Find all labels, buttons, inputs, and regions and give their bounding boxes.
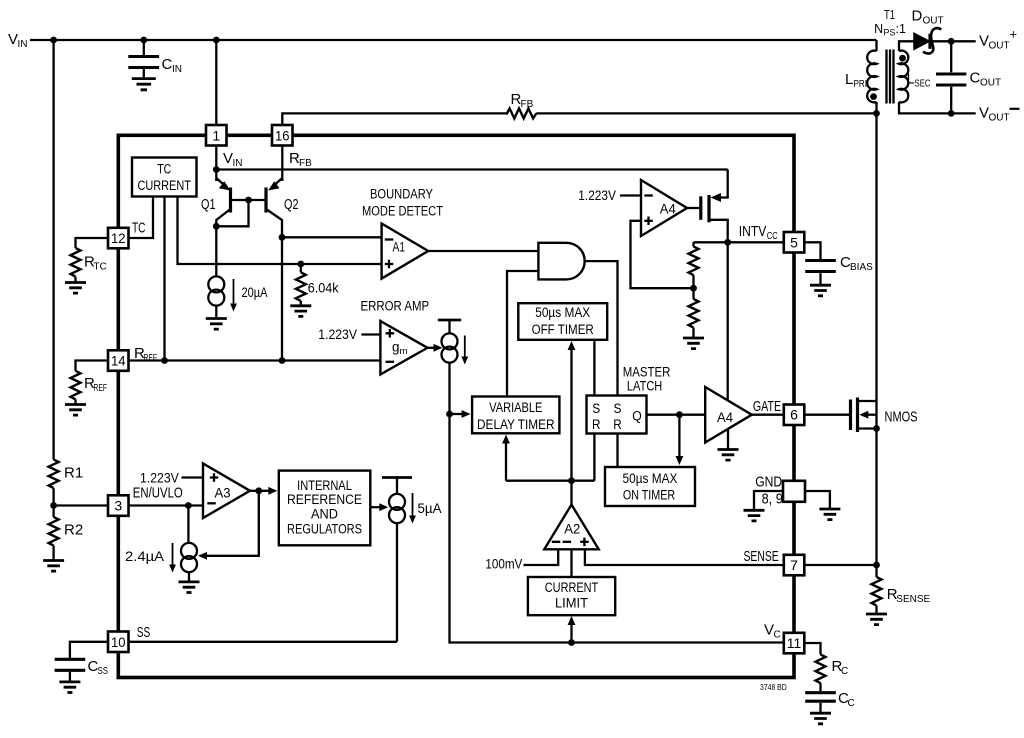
svg-text:A4: A4 bbox=[717, 410, 733, 425]
wire pin6 to NMOS gate bbox=[804, 414, 850, 416]
resistor RTC bbox=[71, 248, 81, 277]
node junction pin1 internal bbox=[213, 166, 220, 173]
svg-text:100mV: 100mV bbox=[485, 557, 522, 572]
svg-text:MODE DETECT: MODE DETECT bbox=[362, 204, 443, 219]
svg-text:Q: Q bbox=[632, 409, 642, 424]
capacitor CC bbox=[805, 693, 836, 713]
svg-text:SENSE: SENSE bbox=[744, 548, 779, 565]
svg-text:OFF TIMER: OFF TIMER bbox=[532, 322, 594, 337]
node junction CIN tap bbox=[140, 37, 147, 44]
svg-text:Q1: Q1 bbox=[201, 196, 216, 213]
svg-text:A2: A2 bbox=[564, 521, 580, 536]
svg-text:MASTER: MASTER bbox=[623, 365, 671, 380]
node junction R1 R2 bbox=[50, 502, 57, 509]
capacitor CBIAS bbox=[805, 261, 836, 285]
node junction INTVCC bbox=[724, 239, 731, 246]
node junction Q1 collector bbox=[213, 223, 220, 230]
svg-text:SENSE: SENSE bbox=[896, 594, 930, 605]
wire GND pin left bbox=[754, 491, 783, 510]
current source 2.4uA bbox=[181, 506, 197, 582]
svg-text:S: S bbox=[614, 401, 622, 416]
svg-text:V: V bbox=[979, 105, 989, 122]
wire INTVCC to gate driver supply bbox=[727, 242, 729, 401]
node junction RSENSE bbox=[873, 562, 880, 569]
svg-text:SS: SS bbox=[137, 624, 151, 641]
svg-text:C: C bbox=[162, 56, 173, 73]
wire internal VIN rail bbox=[216, 168, 727, 170]
label pin16 RFB bbox=[289, 150, 312, 169]
svg-text:C: C bbox=[848, 698, 855, 709]
wire A4 driver output bbox=[752, 414, 784, 416]
wire TC CURRENT to RREF line bbox=[163, 197, 165, 361]
svg-text:IN: IN bbox=[172, 64, 182, 75]
wire SS line bbox=[129, 641, 398, 643]
wire 1.223V to gm plus bbox=[361, 333, 380, 335]
svg-text:REF: REF bbox=[144, 353, 158, 364]
label pin14 RREF bbox=[134, 345, 157, 364]
svg-text:TC: TC bbox=[132, 220, 146, 237]
wire R1 to node bbox=[54, 488, 108, 505]
wire VIN down to R1 bbox=[52, 40, 54, 460]
resistor RFB bbox=[506, 108, 537, 118]
node junction divider bbox=[690, 285, 697, 292]
comparator A2 bbox=[544, 505, 598, 550]
svg-text:S: S bbox=[592, 401, 600, 416]
svg-text:10: 10 bbox=[111, 634, 126, 650]
svg-text:IN: IN bbox=[233, 158, 243, 169]
svg-text:REGULATORS: REGULATORS bbox=[287, 522, 362, 537]
wire A2 plus to SENSE bbox=[585, 549, 784, 565]
wire error output to VC bbox=[450, 414, 784, 643]
node VIN label bbox=[8, 31, 28, 50]
arrow Q to ON timer bbox=[676, 415, 684, 465]
diode DOUT bbox=[914, 33, 930, 49]
capacitor CIN bbox=[128, 40, 159, 78]
svg-text:C: C bbox=[970, 70, 981, 87]
pin 16 bbox=[272, 125, 293, 146]
arrow A2 to OFF timer bbox=[568, 341, 576, 505]
inductor LPRI winding bbox=[867, 51, 876, 103]
svg-text:R: R bbox=[613, 417, 622, 432]
pin 14 bbox=[108, 350, 129, 371]
pin 6 bbox=[784, 405, 805, 426]
label RSENSE bbox=[887, 586, 931, 605]
wire pin14 to RREF bbox=[76, 361, 109, 371]
node junction RREF-Q2 bbox=[279, 357, 286, 364]
arrow 5uA down bbox=[409, 493, 416, 524]
wire VIN rail bbox=[30, 39, 877, 41]
op-amp A4 regulator bbox=[641, 180, 687, 236]
svg-text:CURRENT: CURRENT bbox=[138, 178, 191, 193]
block CURRENT LIMIT bbox=[528, 577, 615, 615]
label CBIAS bbox=[840, 254, 873, 273]
svg-text:SS: SS bbox=[98, 666, 109, 677]
ground CSS bbox=[59, 682, 80, 693]
svg-text:OUT: OUT bbox=[989, 41, 1010, 52]
wire pin12 to RTC bbox=[76, 238, 109, 248]
node phase dot primary bbox=[870, 93, 877, 100]
svg-text:VARIABLE: VARIABLE bbox=[489, 400, 542, 415]
transistor PMOS pass bbox=[687, 170, 728, 243]
svg-text:R1: R1 bbox=[64, 465, 83, 482]
label BOUNDARY MODE DETECT bbox=[362, 187, 443, 219]
node junction VIN-left bbox=[50, 37, 57, 44]
wire A1 to AND bbox=[428, 250, 538, 252]
IC boundary LT3748 bbox=[118, 135, 794, 677]
label LPRI bbox=[845, 71, 867, 90]
svg-text:g: g bbox=[392, 340, 400, 355]
svg-text:INTV: INTV bbox=[739, 223, 767, 240]
label RC bbox=[832, 658, 849, 677]
transformer core bbox=[887, 50, 894, 104]
svg-text:LIMIT: LIMIT bbox=[555, 596, 588, 611]
pin 10 bbox=[108, 632, 129, 653]
svg-text:SEC: SEC bbox=[915, 79, 931, 90]
wire OFF timer to latch S bbox=[593, 340, 595, 396]
label CSS bbox=[88, 658, 109, 677]
node junction NMOS source bbox=[873, 425, 880, 432]
arrow A3 to internal ref bbox=[250, 487, 277, 495]
block 50us MAX ON TIMER bbox=[605, 467, 695, 506]
ground CC bbox=[810, 713, 831, 724]
svg-text:NMOS: NMOS bbox=[885, 409, 918, 426]
node junction primary-RFB bbox=[873, 110, 880, 117]
wire latch Q output bbox=[647, 414, 706, 416]
svg-text:m: m bbox=[400, 346, 408, 357]
ground RTC bbox=[65, 283, 86, 294]
svg-text:OUT: OUT bbox=[980, 78, 1001, 89]
svg-text:REF: REF bbox=[94, 383, 108, 394]
ground CIN bbox=[132, 79, 156, 90]
svg-text:EN/UVLO: EN/UVLO bbox=[133, 485, 183, 502]
label LSEC bbox=[907, 71, 931, 90]
svg-text:OUT: OUT bbox=[923, 16, 944, 27]
svg-text:T1: T1 bbox=[884, 8, 895, 22]
inductor LSEC winding bbox=[899, 51, 908, 103]
svg-text:1.223V: 1.223V bbox=[318, 327, 357, 342]
wire 100mV input bbox=[524, 549, 559, 565]
label pin1 VIN bbox=[223, 150, 243, 169]
svg-text:7: 7 bbox=[790, 557, 798, 573]
block 50us MAX OFF TIMER bbox=[518, 303, 607, 340]
block TC CURRENT bbox=[132, 158, 197, 197]
block VARIABLE DELAY TIMER bbox=[472, 397, 559, 434]
svg-text:INTERNAL: INTERNAL bbox=[297, 478, 352, 493]
wire primary bottom bbox=[875, 102, 877, 113]
pin 1 bbox=[206, 125, 227, 146]
wire RREF internal line bbox=[129, 359, 381, 361]
pin GND 8,9 bbox=[783, 481, 805, 502]
svg-text:5µA: 5µA bbox=[418, 501, 442, 516]
svg-text:V: V bbox=[764, 622, 774, 639]
wire secondary top bbox=[899, 41, 914, 51]
wire GND pin right bbox=[805, 491, 830, 509]
ground R2 bbox=[43, 561, 64, 572]
op-amp gm error amp bbox=[380, 321, 427, 375]
current source 20uA bbox=[208, 226, 224, 318]
label RFB resistor bbox=[511, 91, 534, 110]
svg-text:1: 1 bbox=[212, 127, 220, 143]
svg-text::1: :1 bbox=[896, 22, 906, 36]
node junction COUT bottom bbox=[948, 110, 955, 117]
wire pin5 to CBIAS bbox=[804, 242, 820, 259]
label DOUT bbox=[912, 8, 944, 27]
wire RREF to ground bbox=[74, 399, 76, 404]
transformer T1 primary lead bbox=[875, 40, 877, 51]
arrow into variable delay timer bbox=[450, 410, 471, 418]
svg-text:PS: PS bbox=[883, 28, 895, 38]
svg-text:AND: AND bbox=[311, 506, 338, 521]
wire 1.223V to A3 plus bbox=[182, 476, 204, 478]
node junction COUT top bbox=[948, 38, 955, 45]
svg-text:BIAS: BIAS bbox=[850, 262, 873, 273]
node junction reset A2 bbox=[568, 477, 575, 484]
label CC bbox=[838, 690, 855, 709]
node junction VDT tap bbox=[446, 411, 453, 418]
wire 1.223V to A4 minus bbox=[620, 194, 641, 196]
svg-text:6.04k: 6.04k bbox=[308, 280, 339, 295]
ground CBIAS bbox=[810, 285, 831, 296]
pin 11 bbox=[784, 633, 805, 654]
svg-text:50µs MAX: 50µs MAX bbox=[623, 471, 678, 486]
capacitor COUT bbox=[936, 41, 966, 113]
wire pin16 up and RFB line bbox=[282, 113, 876, 125]
wire TC CURRENT to A1 plus line bbox=[178, 197, 382, 265]
wire pin12 to TC CURRENT bbox=[129, 197, 154, 239]
svg-text:A4: A4 bbox=[660, 202, 676, 217]
wire pin11 to RC bbox=[804, 643, 820, 655]
resistor R1 bbox=[49, 460, 59, 489]
label VOUT- bbox=[979, 105, 1020, 124]
op-amp A1 bbox=[382, 224, 429, 279]
ground 6.04k bbox=[290, 306, 311, 317]
op-amp A4 gate driver bbox=[705, 387, 752, 443]
svg-text:R: R bbox=[592, 417, 601, 432]
ground RREF bbox=[65, 405, 86, 416]
svg-text:16: 16 bbox=[275, 127, 290, 143]
svg-text:GATE: GATE bbox=[753, 398, 781, 415]
transistor NMOS bbox=[851, 398, 877, 566]
svg-text:+: + bbox=[1010, 27, 1018, 42]
wire reset line bbox=[506, 480, 594, 482]
svg-text:12: 12 bbox=[111, 230, 126, 246]
resistor divider lower bbox=[689, 288, 699, 337]
wire A1 minus input bbox=[282, 236, 382, 238]
svg-text:TC: TC bbox=[157, 162, 171, 177]
svg-text:8, 9: 8, 9 bbox=[762, 491, 783, 508]
ground RSENSE bbox=[866, 614, 887, 625]
svg-text:PRI: PRI bbox=[854, 79, 868, 90]
wire RTC to ground bbox=[74, 277, 76, 282]
node junction Q bbox=[676, 411, 683, 418]
node junction pin1 top bbox=[213, 37, 220, 44]
node junction Q1 base bbox=[245, 197, 252, 204]
svg-text:BOUNDARY: BOUNDARY bbox=[370, 187, 433, 202]
label CIN bbox=[162, 56, 183, 75]
wire A4 plus feedback bbox=[631, 221, 694, 288]
svg-text:V: V bbox=[979, 33, 989, 50]
arrow 20uA down bbox=[230, 279, 237, 312]
svg-text:FB: FB bbox=[299, 158, 312, 169]
svg-text:D: D bbox=[912, 8, 923, 25]
label pin5 INTVCC bbox=[739, 223, 778, 242]
wire AND lower input bbox=[507, 271, 538, 397]
resistor divider upper bbox=[689, 242, 699, 288]
arrow VC into current limit bbox=[568, 616, 576, 643]
svg-text:2.4µA: 2.4µA bbox=[125, 549, 164, 564]
label MASTER LATCH bbox=[623, 365, 671, 394]
wire SENSE outside bbox=[804, 564, 876, 566]
node junction 6.04k tap bbox=[297, 261, 304, 268]
resistor RREF bbox=[71, 371, 81, 400]
transistor Q1 bbox=[216, 146, 230, 227]
svg-text:V: V bbox=[8, 31, 18, 48]
svg-text:CURRENT: CURRENT bbox=[545, 580, 598, 595]
svg-text:3748 BD: 3748 BD bbox=[760, 682, 787, 692]
capacitor CSS bbox=[55, 659, 86, 681]
wire A2 mid to current limit bbox=[570, 549, 572, 577]
node junction RREF-TC bbox=[161, 357, 168, 364]
label RREF resistor bbox=[84, 375, 107, 394]
wire Q2 collector to RREF line bbox=[281, 237, 283, 360]
wire drain vertical bbox=[875, 113, 877, 401]
svg-text:L: L bbox=[845, 71, 853, 88]
svg-text:A1: A1 bbox=[393, 240, 406, 255]
resistor 6.04k bbox=[296, 264, 306, 305]
label VOUT+ bbox=[979, 27, 1017, 52]
label RTC bbox=[84, 254, 107, 273]
ground GND left bbox=[744, 510, 765, 521]
arrow gm to source bbox=[428, 344, 443, 352]
label pin11 VC bbox=[764, 622, 781, 641]
pin 5 bbox=[784, 232, 805, 253]
svg-text:C: C bbox=[841, 666, 848, 677]
current source 5uA bbox=[382, 478, 412, 642]
label COUT bbox=[970, 70, 1002, 89]
svg-text:OUT: OUT bbox=[989, 113, 1010, 124]
svg-text:Q2: Q2 bbox=[284, 196, 299, 213]
svg-text:ON TIMER: ON TIMER bbox=[623, 488, 675, 503]
svg-text:N: N bbox=[874, 22, 883, 36]
node phase dot secondary bbox=[899, 55, 906, 62]
svg-text:3: 3 bbox=[114, 498, 122, 514]
svg-text:50µs MAX: 50µs MAX bbox=[535, 305, 590, 320]
svg-text:FB: FB bbox=[521, 99, 534, 110]
pin 3 bbox=[108, 495, 129, 516]
pin 7 bbox=[784, 555, 805, 576]
svg-text:REFERENCE: REFERENCE bbox=[287, 492, 362, 507]
svg-text:DELAY TIMER: DELAY TIMER bbox=[477, 417, 555, 432]
svg-text:11: 11 bbox=[787, 635, 802, 651]
arrow A3 to 2.4uA source bbox=[198, 491, 259, 560]
ground 2.4uA bbox=[179, 582, 200, 593]
node junction VC current limit bbox=[568, 639, 575, 646]
wire diode to VOUT+ bbox=[928, 40, 975, 42]
pin 12 bbox=[108, 228, 129, 249]
svg-text:CC: CC bbox=[767, 231, 778, 242]
svg-text:14: 14 bbox=[111, 353, 126, 369]
block MASTER LATCH bbox=[587, 396, 647, 434]
wire latch R2 to ON timer bbox=[616, 434, 618, 468]
wire node to R2 bbox=[52, 506, 54, 518]
label NPS:1 bbox=[874, 22, 906, 37]
wire pin1 to rail bbox=[215, 40, 217, 126]
wire pin3 to A3 minus bbox=[129, 504, 204, 506]
node junction EN bbox=[185, 502, 192, 509]
ground divider bbox=[683, 338, 704, 349]
resistor RSENSE bbox=[872, 565, 882, 614]
ground A4 driver bbox=[718, 429, 739, 460]
svg-text:ERROR AMP: ERROR AMP bbox=[361, 298, 430, 313]
arrow error source down bbox=[461, 336, 468, 365]
ground 20uA bbox=[206, 319, 227, 330]
gate AND bbox=[538, 243, 584, 280]
svg-text:LATCH: LATCH bbox=[627, 379, 662, 394]
snubber squiggle bbox=[923, 28, 941, 53]
svg-text:1.223V: 1.223V bbox=[578, 188, 616, 203]
block INTERNAL REFERENCE AND REGULATORS bbox=[279, 471, 371, 546]
svg-text:1.223V: 1.223V bbox=[140, 471, 179, 486]
wire Q1 base link bbox=[216, 200, 266, 226]
svg-text:IN: IN bbox=[18, 39, 28, 50]
wire pin10 to CSS bbox=[70, 642, 108, 658]
wire latch R to reset line bbox=[593, 434, 595, 481]
resistor RC bbox=[816, 655, 826, 692]
resistor R2 bbox=[49, 517, 59, 546]
node junction A3 out bbox=[255, 487, 262, 494]
ground GND right bbox=[819, 509, 840, 520]
wire VOUT- line bbox=[899, 102, 976, 113]
arrow reset into VDT bbox=[502, 435, 510, 481]
wire INTVCC line bbox=[694, 241, 784, 243]
arrow internal ref to 5uA bbox=[370, 503, 388, 511]
svg-text:C: C bbox=[774, 630, 781, 641]
node junction A1 minus tap bbox=[279, 234, 286, 241]
svg-text:TC: TC bbox=[94, 262, 107, 273]
wire R2 to ground bbox=[52, 546, 54, 560]
transistor Q2 bbox=[266, 146, 282, 238]
svg-text:6: 6 bbox=[790, 407, 798, 423]
svg-text:20µA: 20µA bbox=[242, 285, 268, 300]
svg-text:A3: A3 bbox=[215, 486, 231, 501]
comparator A3 bbox=[203, 464, 250, 519]
arrow 2.4uA down bbox=[169, 543, 176, 573]
svg-text:V: V bbox=[223, 150, 233, 167]
wire AND output bbox=[585, 261, 618, 395]
svg-text:R2: R2 bbox=[64, 522, 83, 539]
current source error amp output bbox=[438, 320, 461, 414]
svg-text:GND: GND bbox=[755, 474, 782, 491]
svg-text:5: 5 bbox=[790, 234, 798, 250]
